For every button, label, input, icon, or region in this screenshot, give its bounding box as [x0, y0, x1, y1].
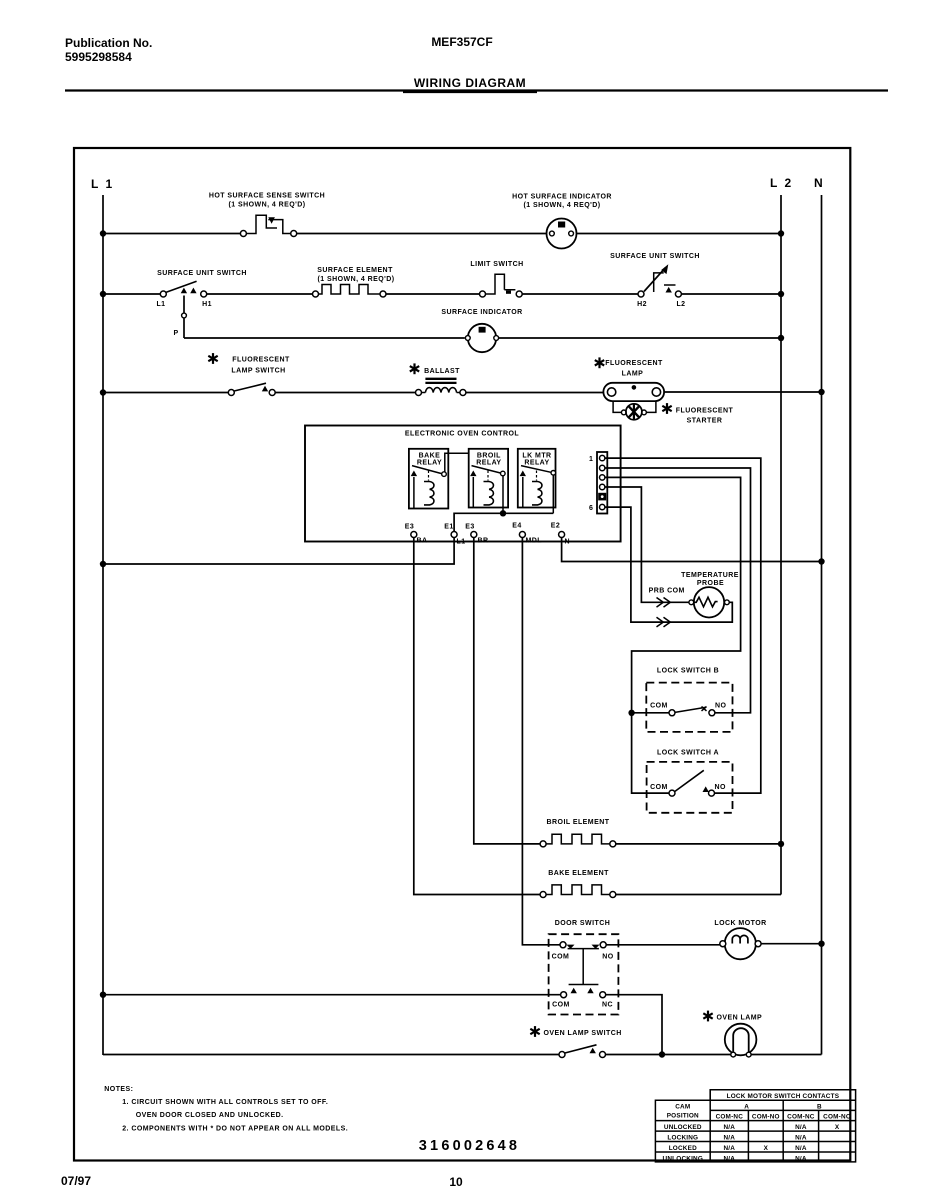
svg-text:COM-NO: COM-NO: [823, 1113, 851, 1120]
wire pin4 to probe COM: [605, 487, 689, 602]
wire door switch NO to lock motor: [606, 944, 720, 946]
wire L1 vertical rail: [102, 195, 104, 1055]
junction E1 wire on L1: [100, 561, 106, 567]
svg-text:X: X: [764, 1145, 769, 1152]
lamp surface indicator: [465, 324, 498, 352]
svg-text:FLUORESCENT: FLUORESCENT: [605, 360, 663, 367]
junction NC branch on lamp wire: [659, 1051, 665, 1057]
wire internal L1 bus: [454, 513, 553, 531]
table lock motor switch contacts: [655, 1090, 855, 1162]
svg-text:07/97: 07/97: [61, 1174, 91, 1188]
wire lock motor to N: [761, 943, 821, 945]
svg-text:N: N: [565, 539, 571, 546]
wire pin3 to lock switches COM: [605, 477, 741, 793]
svg-text:BAKE: BAKE: [419, 453, 441, 460]
wire oven lamp to N: [751, 1054, 821, 1056]
svg-text:N/A: N/A: [795, 1145, 807, 1152]
svg-text:1: 1: [589, 456, 593, 463]
svg-text:N: N: [814, 176, 823, 190]
box lock switch A dashed: [647, 762, 733, 813]
label hot surface indicator: [512, 194, 612, 210]
wire pin2 to lock switch B NO: [605, 468, 751, 713]
svg-text:STARTER: STARTER: [687, 418, 723, 425]
notes block: [104, 1086, 348, 1133]
lamp oven lamp: [725, 1024, 757, 1057]
svg-text:E2: E2: [551, 523, 560, 530]
junction L1-row1: [100, 230, 106, 236]
switch fluorescent lamp switch: [228, 383, 275, 395]
svg-text:N/A: N/A: [723, 1155, 735, 1162]
wire row2 right: [681, 293, 781, 295]
relay K3 lock motor relay: [518, 449, 556, 508]
svg-text:BALLAST: BALLAST: [424, 368, 460, 375]
wire row2 limit to H2: [522, 293, 638, 295]
svg-text:COM: COM: [650, 702, 668, 709]
svg-text:BA: BA: [417, 538, 428, 545]
svg-text:B: B: [817, 1104, 822, 1111]
svg-text:L2: L2: [676, 301, 685, 308]
svg-text:(1 SHOWN, 4 REQ'D): (1 SHOWN, 4 REQ'D): [228, 202, 305, 209]
svg-text:10: 10: [449, 1175, 463, 1189]
svg-text:UNLOCKING: UNLOCKING: [663, 1155, 704, 1162]
svg-text:ELECTRONIC OVEN CONTROL: ELECTRONIC OVEN CONTROL: [405, 431, 519, 438]
junction row1-L2: [778, 230, 784, 236]
svg-text:NO: NO: [602, 954, 614, 961]
junction lock switch B COM branch: [628, 710, 634, 716]
svg-text:COM: COM: [552, 1002, 570, 1009]
wire row1 left: [103, 233, 240, 235]
label oven lamp switch: [530, 1026, 621, 1037]
junction broil contact on bus: [500, 510, 506, 516]
svg-text:2. COMPONENTS WITH * DO NOT AP: 2. COMPONENTS WITH * DO NOT APPEAR ON AL…: [122, 1126, 348, 1133]
switch surface unit switch left: [156, 281, 211, 308]
resistor temperature probe: [689, 587, 729, 617]
wire MDL vertical: [522, 538, 560, 945]
switch hot surface sense switch: [240, 215, 296, 236]
box lock switch B dashed: [646, 683, 732, 732]
terminal E4 MDL: [512, 523, 542, 545]
svg-text:LOCK MOTOR SWITCH CONTACTS: LOCK MOTOR SWITCH CONTACTS: [727, 1093, 840, 1100]
wire L1 to door switch lower COM: [103, 994, 561, 996]
svg-text:SURFACE UNIT SWITCH: SURFACE UNIT SWITCH: [157, 270, 247, 277]
wire bake element to L2: [616, 894, 781, 896]
svg-text:N/A: N/A: [723, 1134, 735, 1141]
box door switch dashed: [549, 934, 619, 1014]
svg-text:(1 SHOWN, 4 REQ'D): (1 SHOWN, 4 REQ'D): [317, 276, 394, 283]
svg-text:NO: NO: [714, 784, 726, 791]
table row unlocked: [664, 1124, 840, 1131]
wire row3 left: [184, 337, 465, 339]
wire row4 left: [103, 392, 228, 394]
svg-text:SURFACE INDICATOR: SURFACE INDICATOR: [441, 309, 522, 316]
svg-text:L 1: L 1: [91, 177, 114, 191]
svg-text:BROIL ELEMENT: BROIL ELEMENT: [547, 819, 610, 826]
svg-text:BR: BR: [478, 538, 489, 545]
wire E1 to L1 rail: [103, 538, 454, 565]
wire row1 right: [577, 233, 782, 235]
svg-text:RELAY: RELAY: [417, 460, 442, 467]
resistor surface element: [313, 285, 387, 298]
junction E2 wire on N: [818, 558, 824, 564]
lamp fluorescent lamp: [603, 383, 664, 401]
wire L2 vertical rail: [780, 195, 782, 895]
wire P branch: [183, 296, 185, 339]
motor lock motor: [720, 928, 761, 959]
svg-text:TEMPERATURE: TEMPERATURE: [681, 572, 739, 579]
svg-text:HOT SURFACE INDICATOR: HOT SURFACE INDICATOR: [512, 194, 612, 201]
svg-text:LOCKED: LOCKED: [669, 1145, 697, 1152]
wire BA vertical: [414, 538, 540, 895]
wire broil relay contact to bus: [502, 476, 504, 514]
svg-text:RELAY: RELAY: [524, 460, 549, 467]
wire lock motor relay contact to bus: [552, 475, 554, 513]
svg-text:L 2: L 2: [770, 176, 793, 190]
relay K1 bake relay: [409, 449, 448, 509]
wire row2 left: [103, 293, 160, 295]
table row locked: [669, 1145, 807, 1152]
svg-text:SURFACE UNIT SWITCH: SURFACE UNIT SWITCH: [610, 253, 700, 260]
svg-text:(1 SHOWN, 4 REQ'D): (1 SHOWN, 4 REQ'D): [523, 202, 600, 209]
svg-text:E1: E1: [444, 524, 453, 531]
switch lock switch A: [650, 770, 726, 796]
switch limit switch: [480, 274, 523, 297]
wire N vertical rail: [821, 195, 823, 1055]
wire bake relay contact to broil box: [445, 453, 469, 472]
svg-text:A: A: [744, 1104, 749, 1111]
wire E2 to N rail: [562, 538, 822, 562]
svg-text:L1: L1: [457, 539, 466, 546]
junction row4-N: [818, 389, 824, 395]
box electronic oven control U1: [305, 426, 621, 542]
wire row3 right: [499, 337, 781, 339]
connector J1: [597, 452, 607, 514]
svg-text:N/A: N/A: [723, 1145, 735, 1152]
terminal P: [182, 313, 187, 318]
svg-text:H1: H1: [202, 301, 212, 308]
lamp hot surface indicator: [547, 219, 577, 249]
svg-text:H2: H2: [637, 301, 647, 308]
label oven lamp: [703, 1011, 762, 1022]
wire BR vertical: [474, 538, 540, 844]
svg-text:FLUORESCENT: FLUORESCENT: [676, 408, 734, 415]
svg-text:OVEN LAMP: OVEN LAMP: [717, 1015, 763, 1022]
svg-text:NOTES:: NOTES:: [104, 1086, 133, 1093]
plug arrow top: [657, 598, 671, 608]
svg-text:DOOR SWITCH: DOOR SWITCH: [555, 920, 611, 927]
svg-text:COM-NO: COM-NO: [752, 1113, 780, 1120]
svg-text:LAMP: LAMP: [622, 371, 644, 378]
starter fluorescent starter: [613, 401, 656, 420]
svg-text:SURFACE ELEMENT: SURFACE ELEMENT: [317, 267, 393, 274]
svg-text:PROBE: PROBE: [697, 580, 724, 587]
wire door switch NC to oven lamp branch: [606, 995, 662, 1055]
resistor bake element: [540, 885, 616, 898]
svg-text:N/A: N/A: [795, 1155, 807, 1162]
table row unlocking: [663, 1155, 807, 1162]
svg-text:1. CIRCUIT SHOWN WITH ALL CONT: 1. CIRCUIT SHOWN WITH ALL CONTROLS SET T…: [122, 1099, 328, 1106]
svg-text:LOCK SWITCH B: LOCK SWITCH B: [657, 668, 719, 675]
svg-text:L1: L1: [156, 301, 165, 308]
inductor ballast: [416, 379, 466, 396]
wire L1 bottom to oven lamp switch: [103, 1054, 559, 1056]
switch oven lamp switch: [559, 1045, 606, 1058]
svg-text:LIMIT SWITCH: LIMIT SWITCH: [470, 261, 523, 268]
wire pin6 to probe return: [605, 507, 732, 622]
svg-text:X: X: [835, 1124, 840, 1131]
svg-text:LAMP SWITCH: LAMP SWITCH: [231, 368, 285, 375]
junction L1-row4: [100, 389, 106, 395]
label temperature probe: [681, 572, 739, 587]
wire row2 H1 to element: [207, 293, 313, 295]
svg-text:Publication No.: Publication No.: [65, 36, 152, 50]
wire row1 middle: [297, 233, 547, 235]
diagram border frame: [74, 148, 850, 1161]
svg-text:NO: NO: [715, 702, 727, 709]
switch surface unit switch right: [637, 264, 685, 308]
svg-text:N/A: N/A: [723, 1124, 735, 1131]
svg-text:FLUORESCENT: FLUORESCENT: [232, 357, 290, 364]
plug arrow bottom: [657, 617, 671, 627]
resistor broil element: [540, 834, 616, 847]
terminal E1 L1: [444, 524, 465, 546]
svg-text:OVEN LAMP SWITCH: OVEN LAMP SWITCH: [544, 1030, 622, 1037]
svg-text:E4: E4: [512, 523, 521, 530]
svg-text:MEF357CF: MEF357CF: [431, 35, 492, 49]
label surface element: [317, 267, 394, 283]
junction row2-L2: [778, 291, 784, 297]
svg-text:6: 6: [589, 505, 593, 512]
terminal E2 N: [551, 523, 570, 546]
relay K2 broil relay: [469, 449, 508, 508]
svg-text:WIRING DIAGRAM: WIRING DIAGRAM: [414, 76, 526, 90]
junction L1-row2: [100, 291, 106, 297]
junction broil-L2: [778, 841, 784, 847]
junction lock motor-N: [818, 941, 824, 947]
svg-text:P: P: [173, 330, 178, 337]
wire row2 element to limit switch: [386, 293, 480, 295]
svg-text:COM: COM: [552, 954, 570, 961]
svg-text:NC: NC: [602, 1002, 613, 1009]
svg-text:LOCK MOTOR: LOCK MOTOR: [714, 920, 766, 927]
switch lock switch B: [632, 702, 727, 716]
table row locking: [667, 1134, 807, 1141]
svg-text:COM-NC: COM-NC: [787, 1113, 815, 1120]
switch door switch upper pole: [552, 942, 614, 961]
wire row4 lamp to N: [664, 391, 821, 393]
junction L1 door switch: [100, 992, 106, 998]
svg-text:UNLOCKED: UNLOCKED: [664, 1124, 702, 1131]
label fluorescent starter: [662, 403, 733, 424]
label hot surface sense switch: [209, 193, 325, 209]
wire row4 ballast to lamp: [466, 392, 604, 394]
label fluorescent lamp: [595, 357, 663, 377]
svg-text:MDL: MDL: [526, 538, 543, 545]
header: publication info: [65, 36, 152, 64]
mechanical link door switch: [569, 949, 599, 985]
svg-text:COM-NC: COM-NC: [716, 1113, 744, 1120]
wire broil element to L2: [616, 843, 781, 845]
svg-text:N/A: N/A: [795, 1134, 807, 1141]
svg-text:POSITION: POSITION: [667, 1113, 699, 1120]
svg-text:PRB COM: PRB COM: [649, 588, 685, 595]
label ballast: [410, 363, 460, 375]
wire oven lamp switch to lamp: [606, 1054, 731, 1056]
svg-text:N/A: N/A: [795, 1124, 807, 1131]
svg-text:COM: COM: [650, 784, 668, 791]
svg-text:BROIL: BROIL: [477, 453, 501, 460]
svg-text:OVEN DOOR CLOSED AND UNLOCKED.: OVEN DOOR CLOSED AND UNLOCKED.: [136, 1112, 284, 1119]
svg-text:BAKE ELEMENT: BAKE ELEMENT: [548, 870, 609, 877]
svg-text:5995298584: 5995298584: [65, 50, 132, 64]
svg-text:LOCKING: LOCKING: [667, 1134, 698, 1141]
svg-text:RELAY: RELAY: [476, 460, 501, 467]
switch door switch lower pole: [552, 988, 613, 1009]
svg-text:HOT SURFACE SENSE SWITCH: HOT SURFACE SENSE SWITCH: [209, 193, 325, 200]
table header text: [667, 1093, 851, 1120]
terminal E3 BR: [465, 524, 488, 545]
svg-text:LK MTR: LK MTR: [522, 453, 551, 460]
wire row4 switch to ballast: [275, 392, 415, 394]
svg-text:316002648: 316002648: [419, 1138, 520, 1154]
label fluorescent lamp switch: [208, 353, 290, 374]
svg-text:E3: E3: [465, 524, 474, 531]
header rule: [65, 89, 888, 91]
svg-text:LOCK SWITCH A: LOCK SWITCH A: [657, 750, 719, 757]
svg-text:E3: E3: [405, 524, 414, 531]
wire pin1 to lock switch A NO: [605, 458, 761, 793]
junction row3-L2: [778, 335, 784, 341]
svg-text:CAM: CAM: [675, 1104, 690, 1111]
terminal E3 BA: [405, 524, 428, 545]
